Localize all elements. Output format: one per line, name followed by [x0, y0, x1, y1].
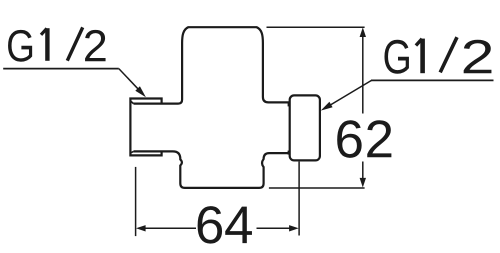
label G1/2 right: 2	[464, 40, 492, 74]
weld nub bottom at cylinder joint	[288, 151, 290, 155]
dim 64 line left segment	[138, 227, 196, 229]
leader arrowhead left	[135, 86, 146, 97]
dim 64 right arrowhead	[289, 225, 299, 231]
label G1/2 right: slash	[440, 37, 457, 72]
weld nub top at cylinder joint	[288, 103, 290, 107]
leader line right	[327, 80, 372, 107]
label G1/2 left: G	[8, 30, 32, 62]
underline of left label	[3, 68, 119, 70]
valve body outline lower: bottom shoulders, base	[134, 151, 290, 188]
dim 62 top extension line	[267, 26, 365, 28]
dim 62 bottom extension line	[269, 187, 365, 189]
leader line left	[119, 69, 143, 95]
dim 64 right extension line	[298, 162, 300, 236]
label G1/2 left: 1 flag	[41, 28, 47, 34]
label G1/2 left: 1 stem	[45, 28, 49, 61]
dim 64 line right segment	[257, 227, 297, 229]
valve body outline upper: left shoulder, top cap, right shoulder	[134, 27, 290, 103]
label G1/2 right: 1 stem	[420, 39, 425, 74]
dim 64 left arrowhead	[136, 225, 146, 231]
dim 62 up arrowhead	[360, 27, 366, 37]
dim 62 vertical line lower segment	[362, 162, 364, 185]
label G1/2 left: 2	[85, 30, 106, 61]
dim text 62	[337, 120, 391, 158]
dim 62 down arrowhead	[360, 178, 366, 188]
dim 64 left extension line	[135, 167, 137, 236]
nipple thread root line top	[130, 101, 133, 104]
label G1/2 right: G	[384, 40, 408, 74]
threaded nipple G1/2 (left) crest outline	[130, 99, 161, 156]
label G1/2 right: 1 flag	[416, 39, 422, 46]
leader arrowhead right	[321, 102, 333, 111]
dim text 64	[198, 206, 252, 244]
underline of right label	[371, 79, 494, 81]
label G1/2 left: slash	[67, 27, 82, 60]
outlet cylinder G1/2 (right)	[290, 95, 320, 160]
nipple thread root line bottom chamfer	[130, 151, 133, 153]
dim 62 vertical line upper segment	[362, 30, 364, 114]
